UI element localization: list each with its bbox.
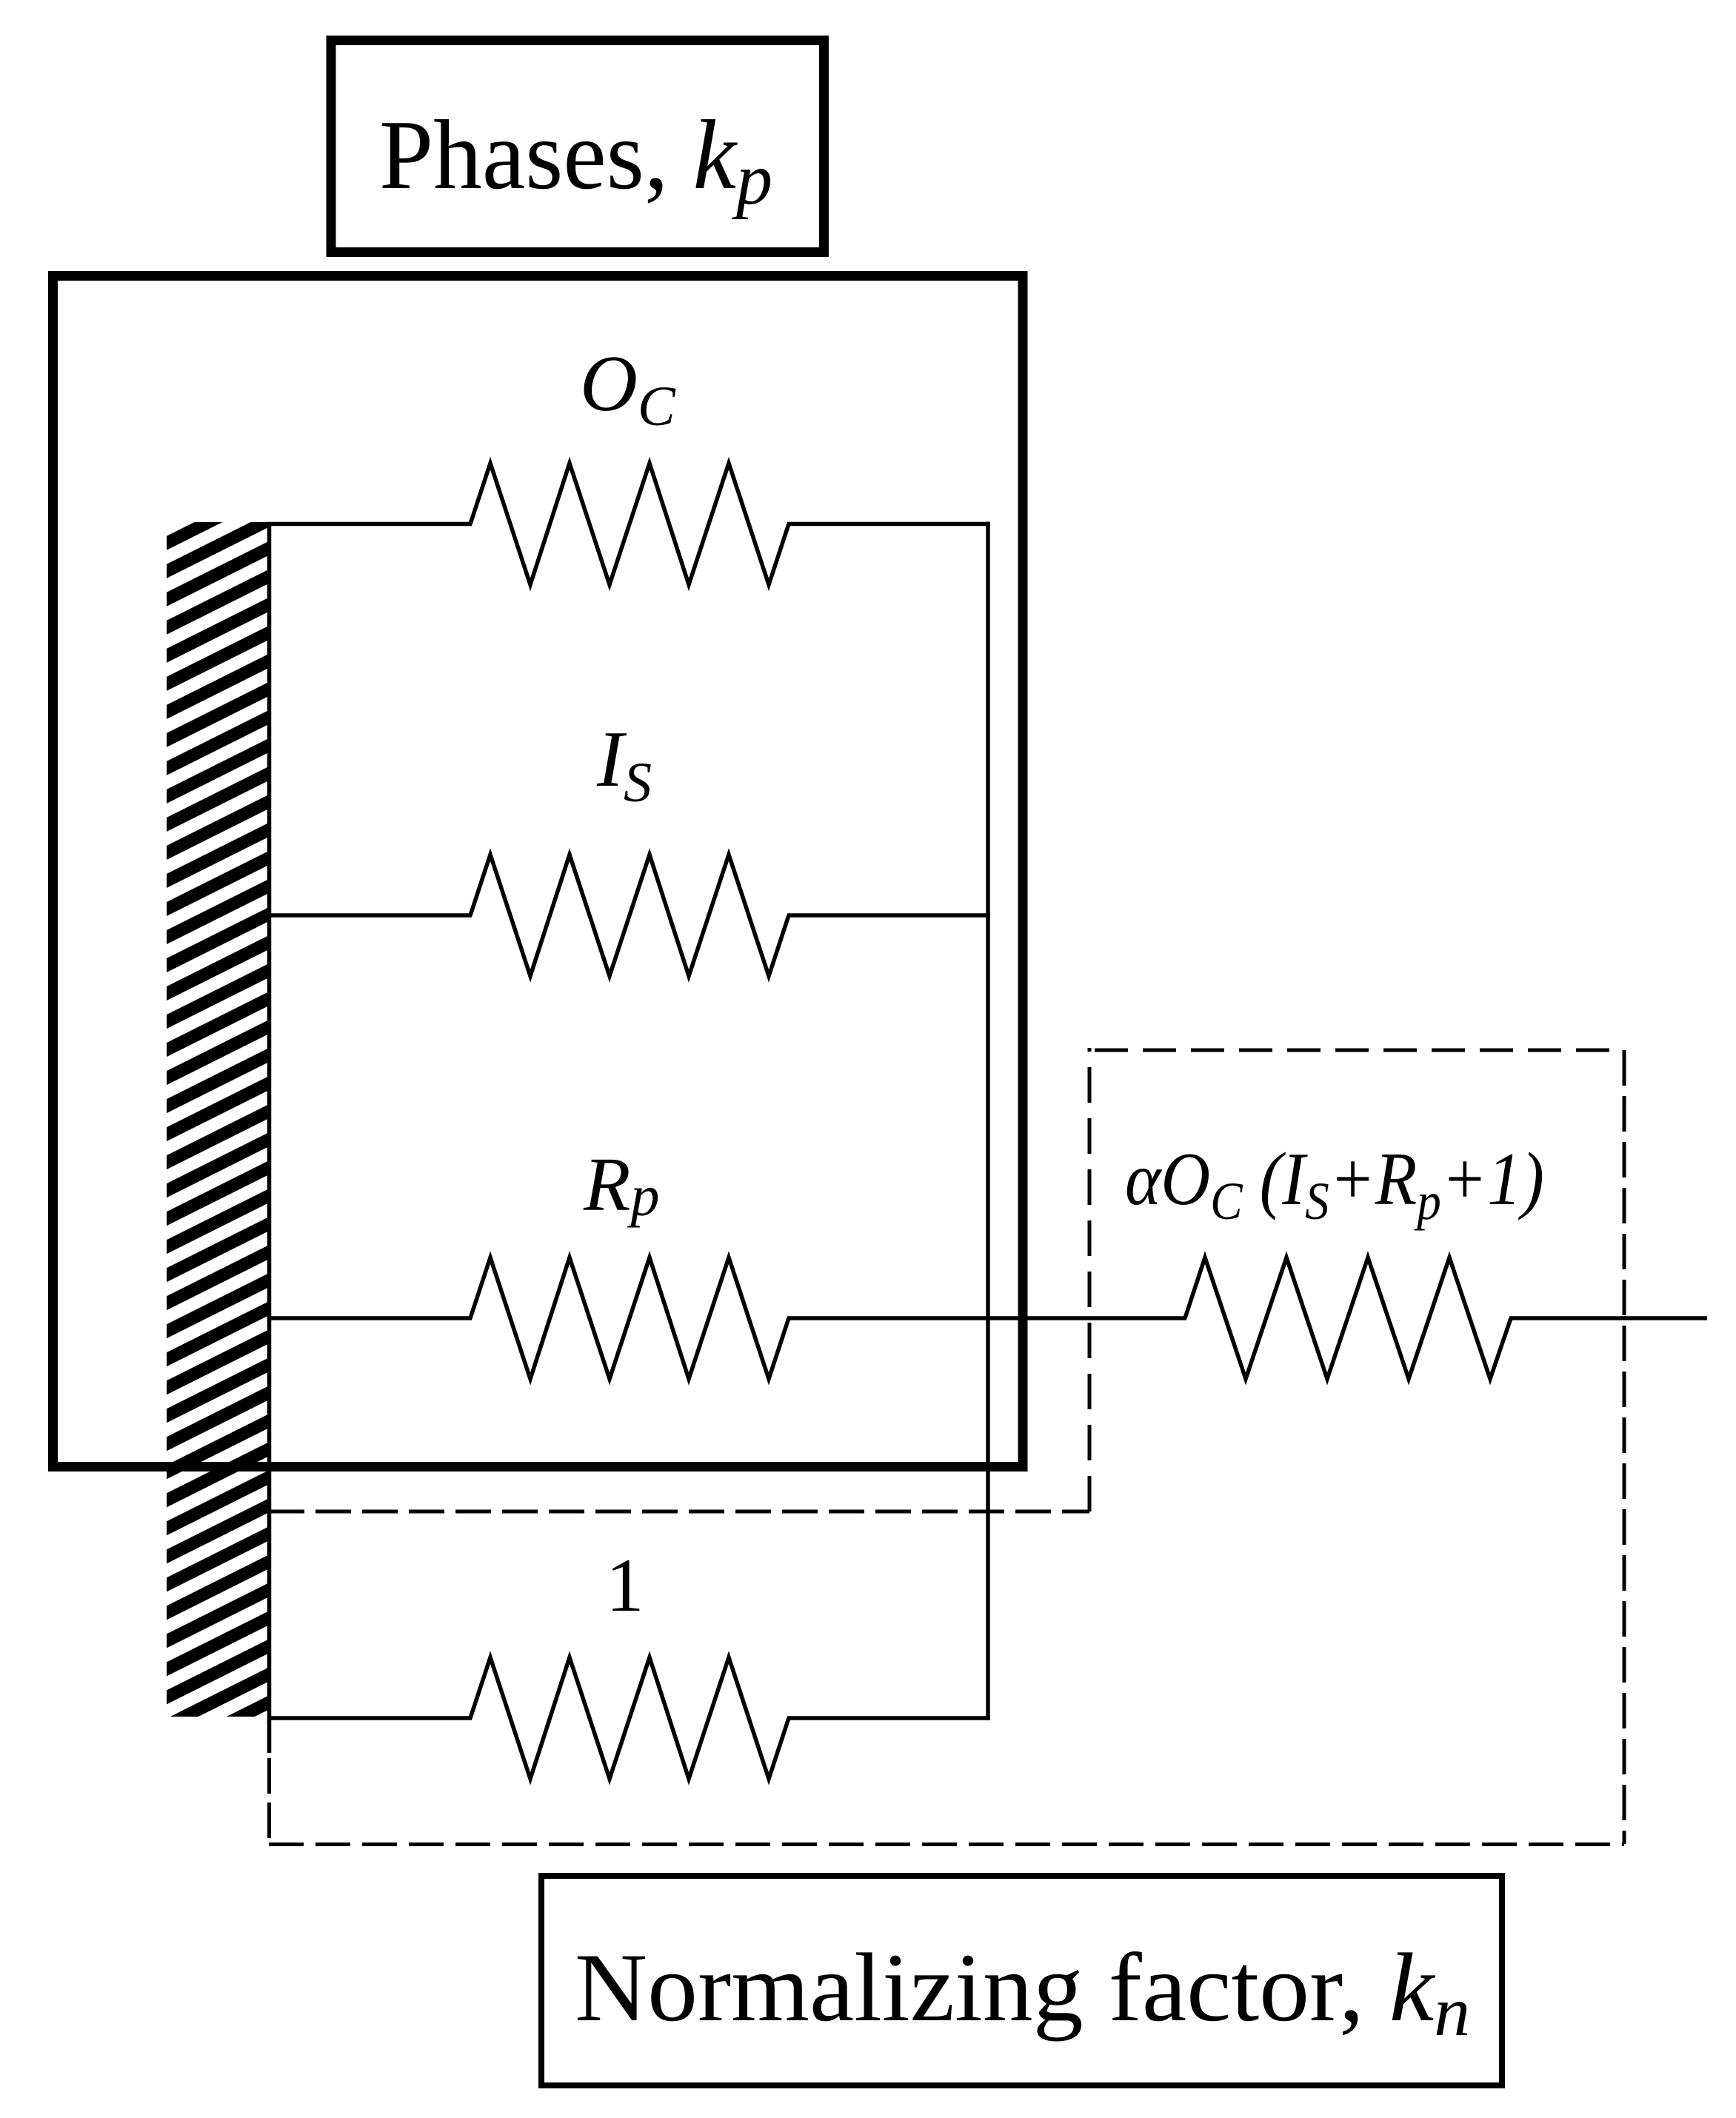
wire O_C left: [267, 522, 472, 527]
wire R_P left: [267, 1316, 472, 1320]
dashed segment: horizontal y=1418 from x=1471 to x=2190: [1095, 1049, 1624, 1052]
wire R_P right (continues to normalizing resistor): [787, 1316, 1186, 1320]
resistor 1 (unit): [470, 1657, 789, 1779]
dashed segment: horizontal y=2490 bottom from x=363 to x=2190: [269, 1843, 1624, 1846]
resistor I_S: [470, 855, 789, 976]
resistor alpha-OC(IS+RP+1): [1185, 1257, 1511, 1379]
ground wall right edge: [267, 522, 272, 1753]
dashed segment: vertical x=1471 from y=1418 to y=2041: [1088, 1048, 1092, 1511]
dashed segment: horizontal y=2041 from wall to x=1471: [269, 1510, 1089, 1514]
svg-text:αOC (IS+Rp+1): αOC (IS+Rp+1): [1125, 1137, 1544, 1231]
thick outer box (phases group): [53, 276, 1024, 1467]
right vertical bus wire: [986, 522, 990, 1721]
wire O_C right: [787, 522, 990, 527]
resistor O_C: [470, 464, 789, 585]
wire I_S right: [787, 913, 990, 918]
wire I_S left: [267, 913, 472, 918]
ground wall (hatched bar): [167, 522, 269, 1717]
resistor R_P: [470, 1257, 789, 1379]
box "Normalizing factor, kn": [541, 1876, 1502, 2085]
box "Phases, kp": [331, 41, 824, 253]
wire unit resistor left: [267, 1716, 472, 1720]
dashed segment: vertical x=2190 from y=1418 to y=2490: [1623, 1050, 1626, 1844]
svg-text:Phases, kp: Phases, kp: [379, 100, 772, 220]
wire normalizing resistor right (to image edge): [1509, 1316, 1707, 1320]
svg-text:Normalizing factor, kn: Normalizing factor, kn: [575, 1933, 1470, 2051]
wire unit resistor right: [787, 1716, 990, 1720]
dashed segment: vertical x=363 below wall from y=2374 to y=2490: [267, 1758, 271, 1844]
svg-text:1: 1: [606, 1543, 644, 1628]
